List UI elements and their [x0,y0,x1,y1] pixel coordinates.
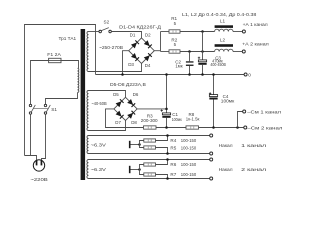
svg-text:Накал: Накал [219,167,233,172]
svg-text:R7: R7 [170,172,176,177]
svg-text:1к-1.5к: 1к-1.5к [186,117,200,122]
wire: fuse to primary top [61,61,79,69]
heater winding 1 ~6.3V [87,136,89,154]
wire: primary bottom to S1 pole2 [46,93,78,105]
svg-text:–См 2 канал: –См 2 канал [247,126,282,131]
svg-text:100-150: 100-150 [181,138,197,143]
plug ~220V [33,160,44,171]
svg-text:~6.3V: ~6.3V [91,142,106,147]
resistor R6 [144,163,156,166]
terminal +A 1 kanal [242,30,245,33]
terminal nakal1 bottom [210,152,213,155]
wire: mains loop left/top/right edges [25,25,96,156]
resistor R1 [169,30,180,33]
resistor R7 [144,173,156,176]
capacitor C2 [189,52,191,62]
svg-text:D8: D8 [131,120,137,125]
svg-text:100мк: 100мк [221,98,234,103]
svg-text:D1-D4 КД226Г-Д: D1-D4 КД226Г-Д [119,24,162,30]
terminal nakal2 bottom [210,177,213,180]
capacitor C4 electrolytic [213,75,215,95]
svg-text:+А 1 канал: +А 1 канал [243,22,268,27]
wire: S2 to bridge top vertex [111,32,141,39]
svg-text:S2: S2 [104,20,110,25]
junction [188,50,191,53]
secondary winding ~40-50V [87,91,89,131]
terminal nakal2 top [210,158,213,161]
center-tap bar 2 [129,166,131,173]
terminal 0 [244,73,247,76]
wire: 0 rail [96,74,245,76]
svg-text:D6: D6 [133,92,139,97]
svg-text:+А 2 канал: +А 2 канал [242,41,269,46]
wire: bridge1 minus to rail [123,51,129,75]
capacitor C1 electrolytic [162,113,170,115]
wire: HV bottom to bridge bottom vertex [89,63,142,71]
svg-text:D5: D5 [113,92,119,97]
svg-text:D4: D4 [145,63,151,68]
wire: bridge2 minus to bias row [106,109,144,128]
svg-text:–См 1 канал: –См 1 канал [247,110,281,115]
resistor R3 [144,126,157,129]
svg-text:100мк: 100мк [172,117,182,122]
svg-text:~6.3V: ~6.3V [91,167,106,172]
terminal nakal1 top [210,134,213,137]
junction [201,50,204,53]
HV secondary winding ~250-270V [87,32,89,72]
wire: heater2 bottom line [89,178,210,180]
svg-text:D7: D7 [115,120,121,125]
resistor R2 [169,50,180,53]
svg-text:400-450В: 400-450В [210,62,226,67]
wire: HV top to S2 [89,31,99,33]
terminal -Sm 1 kanal [243,110,246,113]
terminal -Sm 2 kanal [244,126,247,129]
junction [188,73,191,76]
inductor L2 [215,44,233,47]
svg-text:L1: L1 [220,19,226,24]
svg-text:D3: D3 [128,62,134,67]
junction [212,73,215,76]
svg-text:100-150: 100-150 [181,162,197,167]
svg-text:Накал: Накал [219,143,233,148]
junction / branch to -Sm1 [236,126,239,129]
svg-text:F1 2А: F1 2А [47,52,62,57]
wire: winding2 bottom to bridge2 [89,120,126,130]
wire: heater1 top line [89,135,210,137]
svg-text:1 канал: 1 канал [241,143,266,148]
junction [201,30,204,33]
junction [165,108,168,111]
wire: heater1 bottom line [89,153,210,155]
R2 row [161,51,170,53]
junction [212,126,215,129]
resistor R4 [144,139,156,142]
wire: rows link vertical / C3 top lead [202,32,204,60]
wire: bridge2 plus to C1 branch [137,108,166,110]
svg-text:R4: R4 [170,138,176,143]
svg-text:100-150: 100-150 [181,172,197,177]
wire: winding2 top to bridge2 [89,91,126,98]
capacitor C3 electrolytic [198,60,206,62]
svg-text:~220В: ~220В [30,177,47,182]
junction [138,143,141,146]
wire: S1 pole1 to fuse [31,61,49,105]
wire: bridge1 plus to node [154,50,160,52]
wire: S1 poles down to plug [30,114,32,155]
junction [166,177,169,180]
svg-text:~40-50В: ~40-50В [91,101,106,106]
switch S2 [99,30,102,33]
wire: node split vertical [160,32,162,52]
svg-text:L2: L2 [220,38,226,43]
svg-text:Тр1 ТА1: Тр1 ТА1 [59,36,77,41]
wire: heater2 top line [89,159,210,161]
center-tap bar 1 [129,141,131,148]
switch S1 (dual pole) [29,104,31,106]
junction [138,168,141,171]
junction [165,73,168,76]
terminal +A 2 kanal [242,50,245,53]
resistor R8 [186,126,199,129]
svg-text:D2: D2 [145,32,151,37]
svg-text:R5: R5 [170,146,176,151]
junction [121,73,124,76]
junction [201,73,204,76]
heater winding 2 ~6.3V [87,160,89,179]
svg-text:200-300: 200-300 [141,118,158,123]
bridge rectifier D1-D4 [129,38,155,64]
svg-text:100-150: 100-150 [181,146,197,151]
svg-text:D5-D8 Д223А,В: D5-D8 Д223А,В [110,82,146,88]
junction [166,158,169,161]
R1 row [161,31,170,33]
svg-text:1мк: 1мк [175,63,182,68]
junction [166,134,169,137]
svg-text:D1: D1 [130,32,136,37]
svg-text:0: 0 [248,72,251,77]
primary winding [78,68,79,92]
transformer Tr1 core [81,29,86,180]
junction [165,126,168,129]
junction [166,152,169,155]
fuse F1 2A [49,58,61,62]
svg-text:R6: R6 [170,162,176,167]
svg-text:2 канал: 2 канал [241,167,266,172]
bridge rectifier D5-D8 [114,97,137,120]
svg-text:S1: S1 [51,107,57,112]
inductor L1 [215,25,233,28]
svg-text:~250-270В: ~250-270В [99,45,123,50]
svg-text:L1, L2 Др 0.4-0.34, Др 0.4-0: L1, L2 Др 0.4-0.34, Др 0.4-0.38 [182,12,257,17]
resistor R5 [144,146,156,149]
